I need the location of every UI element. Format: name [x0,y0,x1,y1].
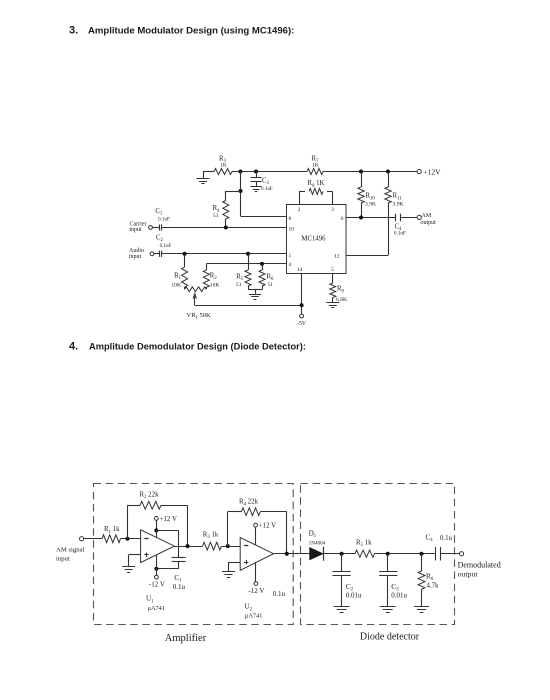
resistor R3 [203,542,222,550]
node R5 top [246,252,250,256]
terminal -12V U2 [254,582,258,586]
svg-text:0.1u: 0.1u [173,583,186,591]
svg-text:10K: 10K [210,283,220,289]
svg-text:input: input [56,555,70,562]
node C2 top [340,552,344,556]
svg-text:12: 12 [334,254,340,260]
svg-text:+12 V: +12 V [160,516,177,523]
svg-text:D1: D1 [309,530,317,540]
resistor R9 [332,274,334,284]
svg-text:3.: 3. [69,25,78,37]
resistor R7 [307,169,323,175]
svg-text:R9: R9 [337,286,345,295]
wire feedback [127,505,129,538]
terminal AM signal input [80,537,84,541]
diode D1 [310,548,323,560]
node R11 top [386,170,390,174]
svg-text:AM: AM [422,213,432,219]
node R1 top [183,252,187,256]
node R10 top [359,170,363,174]
resistor R3 [214,169,232,175]
svg-text:R2 22k: R2 22k [140,491,160,500]
svg-text:0.01u: 0.01u [391,591,407,599]
wire noninverting U2 [229,562,241,564]
node supply- branch [154,567,158,571]
node C3 tap [254,170,258,174]
svg-text:R2: R2 [210,273,218,282]
amplifier dashed box [94,484,294,625]
svg-text:AM signal: AM signal [56,547,85,554]
svg-text:U2: U2 [245,603,253,613]
svg-text:51: 51 [213,213,219,219]
svg-text:4.: 4. [69,341,78,353]
wire [156,568,178,570]
ground [380,606,396,608]
wire [248,289,262,291]
svg-text:output: output [421,220,437,226]
terminal AM output [417,215,421,219]
svg-text:C1: C1 [155,208,163,217]
resistor R4 [225,191,227,201]
wire supply+ [156,520,158,538]
wire [255,563,257,582]
wire pin14 [301,274,303,314]
ground [326,302,339,304]
capacitor C2 [341,554,343,572]
svg-text:0.1uF: 0.1uF [261,186,273,192]
resistor R8 [299,191,301,204]
svg-text:R11: R11 [393,193,403,202]
ground [414,606,429,608]
svg-text:Demodulated: Demodulated [458,560,501,569]
svg-text:Amplifier: Amplifier [165,633,207,644]
svg-text:-12 V: -12 V [149,580,165,588]
svg-text:6: 6 [341,216,344,222]
resistor R2 [140,501,161,509]
resistor R2 [206,264,208,270]
svg-text:Audio: Audio [129,248,144,254]
node R4 branch [239,189,243,193]
svg-text:Amplitude Modulator Design (us: Amplitude Modulator Design (using MC1496… [88,26,294,37]
svg-text:R5 1k: R5 1k [356,539,372,548]
node U1 inverting input [126,537,130,541]
wire [322,553,355,555]
node U2 inverting input [226,544,230,548]
svg-text:14: 14 [297,267,303,273]
wire pin6 [346,217,396,219]
op-amp U MC1496 box [287,205,347,274]
node R4 bottom [224,226,228,230]
wire supply- [156,555,158,569]
wire pin1 [162,253,286,255]
svg-text:3.9K: 3.9K [365,202,376,208]
diode detector dashed box [301,484,455,625]
svg-text:Amplitude Demodulator Design (: Amplitude Demodulator Design (Diode Dete… [89,342,306,352]
op-amp U2 [240,538,273,571]
wire feedback U2 [227,512,229,546]
terminal carrier input [149,226,153,230]
wire [323,171,417,173]
wire [222,546,241,548]
svg-text:R1 1k: R1 1k [104,526,120,535]
svg-text:1K: 1K [220,163,227,169]
terminal -12V U1 [155,575,159,579]
capacitor C4 [395,214,397,222]
capacitor C4 [435,547,437,561]
resistor R11 [388,172,390,188]
terminal demodulated output [459,552,463,556]
wire [274,553,310,555]
svg-text:R10: R10 [366,193,376,202]
node wiper junction [300,303,304,307]
terminal -5V [300,314,304,318]
svg-text:10: 10 [289,226,295,232]
svg-text:μA741: μA741 [245,612,262,619]
svg-text:R4 22k: R4 22k [239,499,259,508]
svg-text:1: 1 [289,253,292,259]
wire [84,538,102,540]
wire [260,511,287,513]
svg-text:R1: R1 [174,273,182,282]
wire wiper [195,305,302,307]
svg-text:6.8K: 6.8K [336,297,347,303]
capacitor C3 [256,172,258,178]
svg-text:U1: U1 [146,595,154,605]
svg-text:C1: C1 [174,573,182,584]
op-amp U1 [141,530,175,563]
wire [240,172,242,217]
ground [122,566,135,568]
capacitor C3 [387,554,389,572]
svg-text:-12 V: -12 V [248,587,264,595]
wire pin8 [241,216,287,218]
svg-text:1K: 1K [312,163,319,169]
capacitor C2 [159,251,161,257]
wire pin10 [162,227,286,229]
svg-text:MC1496: MC1496 [301,236,326,243]
svg-text:51: 51 [268,282,274,288]
wire [226,191,241,193]
wire [174,546,202,548]
svg-text:5: 5 [331,267,334,273]
terminal +12V [417,169,421,173]
ground [334,606,350,608]
node R10 bottom [359,216,363,220]
svg-text:0.1u: 0.1u [440,535,452,542]
wire [154,253,159,255]
svg-text:output: output [458,570,479,579]
resistor R4 [241,508,260,516]
terminal +12V U1 [154,517,158,521]
svg-text:1N4004: 1N4004 [309,540,326,546]
node R6 top [260,262,264,266]
svg-text:2: 2 [298,207,301,213]
wire [121,538,141,540]
terminal +12V U2 [254,523,258,527]
wire [161,505,188,507]
svg-text:3: 3 [331,207,334,213]
resistor R5 [355,550,375,557]
node R3-R7 junction [239,170,243,174]
svg-text:0.1uF: 0.1uF [394,231,406,237]
svg-text:R3 1k: R3 1k [203,532,219,541]
svg-text:input: input [129,254,142,260]
ground [222,571,235,573]
terminal audio input [150,252,154,256]
svg-text:51: 51 [236,282,242,288]
wire [152,227,159,229]
capacitor C1 [159,224,161,230]
svg-text:+12 V: +12 V [259,523,276,530]
svg-text:0.1u: 0.1u [273,590,286,598]
node C3 top [386,552,390,556]
resistor R6 [262,264,264,270]
resistor R5 [248,254,250,270]
svg-text:3.9K: 3.9K [393,202,404,208]
wire [255,527,257,545]
svg-text:10K: 10K [171,283,181,289]
svg-text:0.1uF: 0.1uF [158,216,170,222]
wire [203,171,214,173]
node R6 top [420,552,424,556]
wire pin12 [346,255,388,257]
potentiometer VR1 [185,287,207,292]
wire [440,553,459,555]
wire [400,217,417,219]
svg-text:4: 4 [289,262,292,268]
svg-text:VR1 50K: VR1 50K [187,312,212,321]
wire [241,171,308,173]
resistor R10 [361,172,363,188]
resistor R1 [102,535,121,543]
svg-text:+12V: +12V [423,167,441,176]
wire noninverting [129,554,141,556]
svg-text:0.01u: 0.01u [346,591,362,599]
capacitor C1 [172,557,186,559]
wire [232,171,241,173]
svg-text:-5V: -5V [297,321,307,327]
node supply branch [154,528,158,532]
wire [375,553,435,555]
ground [203,172,205,179]
node U2 output [285,552,289,556]
node U1 output [186,544,190,548]
svg-text:8: 8 [289,216,292,222]
svg-text:R6: R6 [426,572,434,582]
resistor R1 [184,254,186,267]
svg-text:C4: C4 [426,533,434,543]
wire pin4 [206,263,286,265]
svg-text:0.1uF: 0.1uF [160,243,172,249]
svg-text:Diode detector: Diode detector [360,631,420,642]
svg-text:C2: C2 [156,234,164,243]
resistor R6 [421,554,423,571]
svg-text:μA741: μA741 [148,605,165,612]
svg-text:4.7k: 4.7k [427,582,439,589]
wire [156,530,178,532]
svg-text:input: input [129,227,142,233]
svg-text:C3: C3 [262,177,270,186]
ground [255,290,257,294]
